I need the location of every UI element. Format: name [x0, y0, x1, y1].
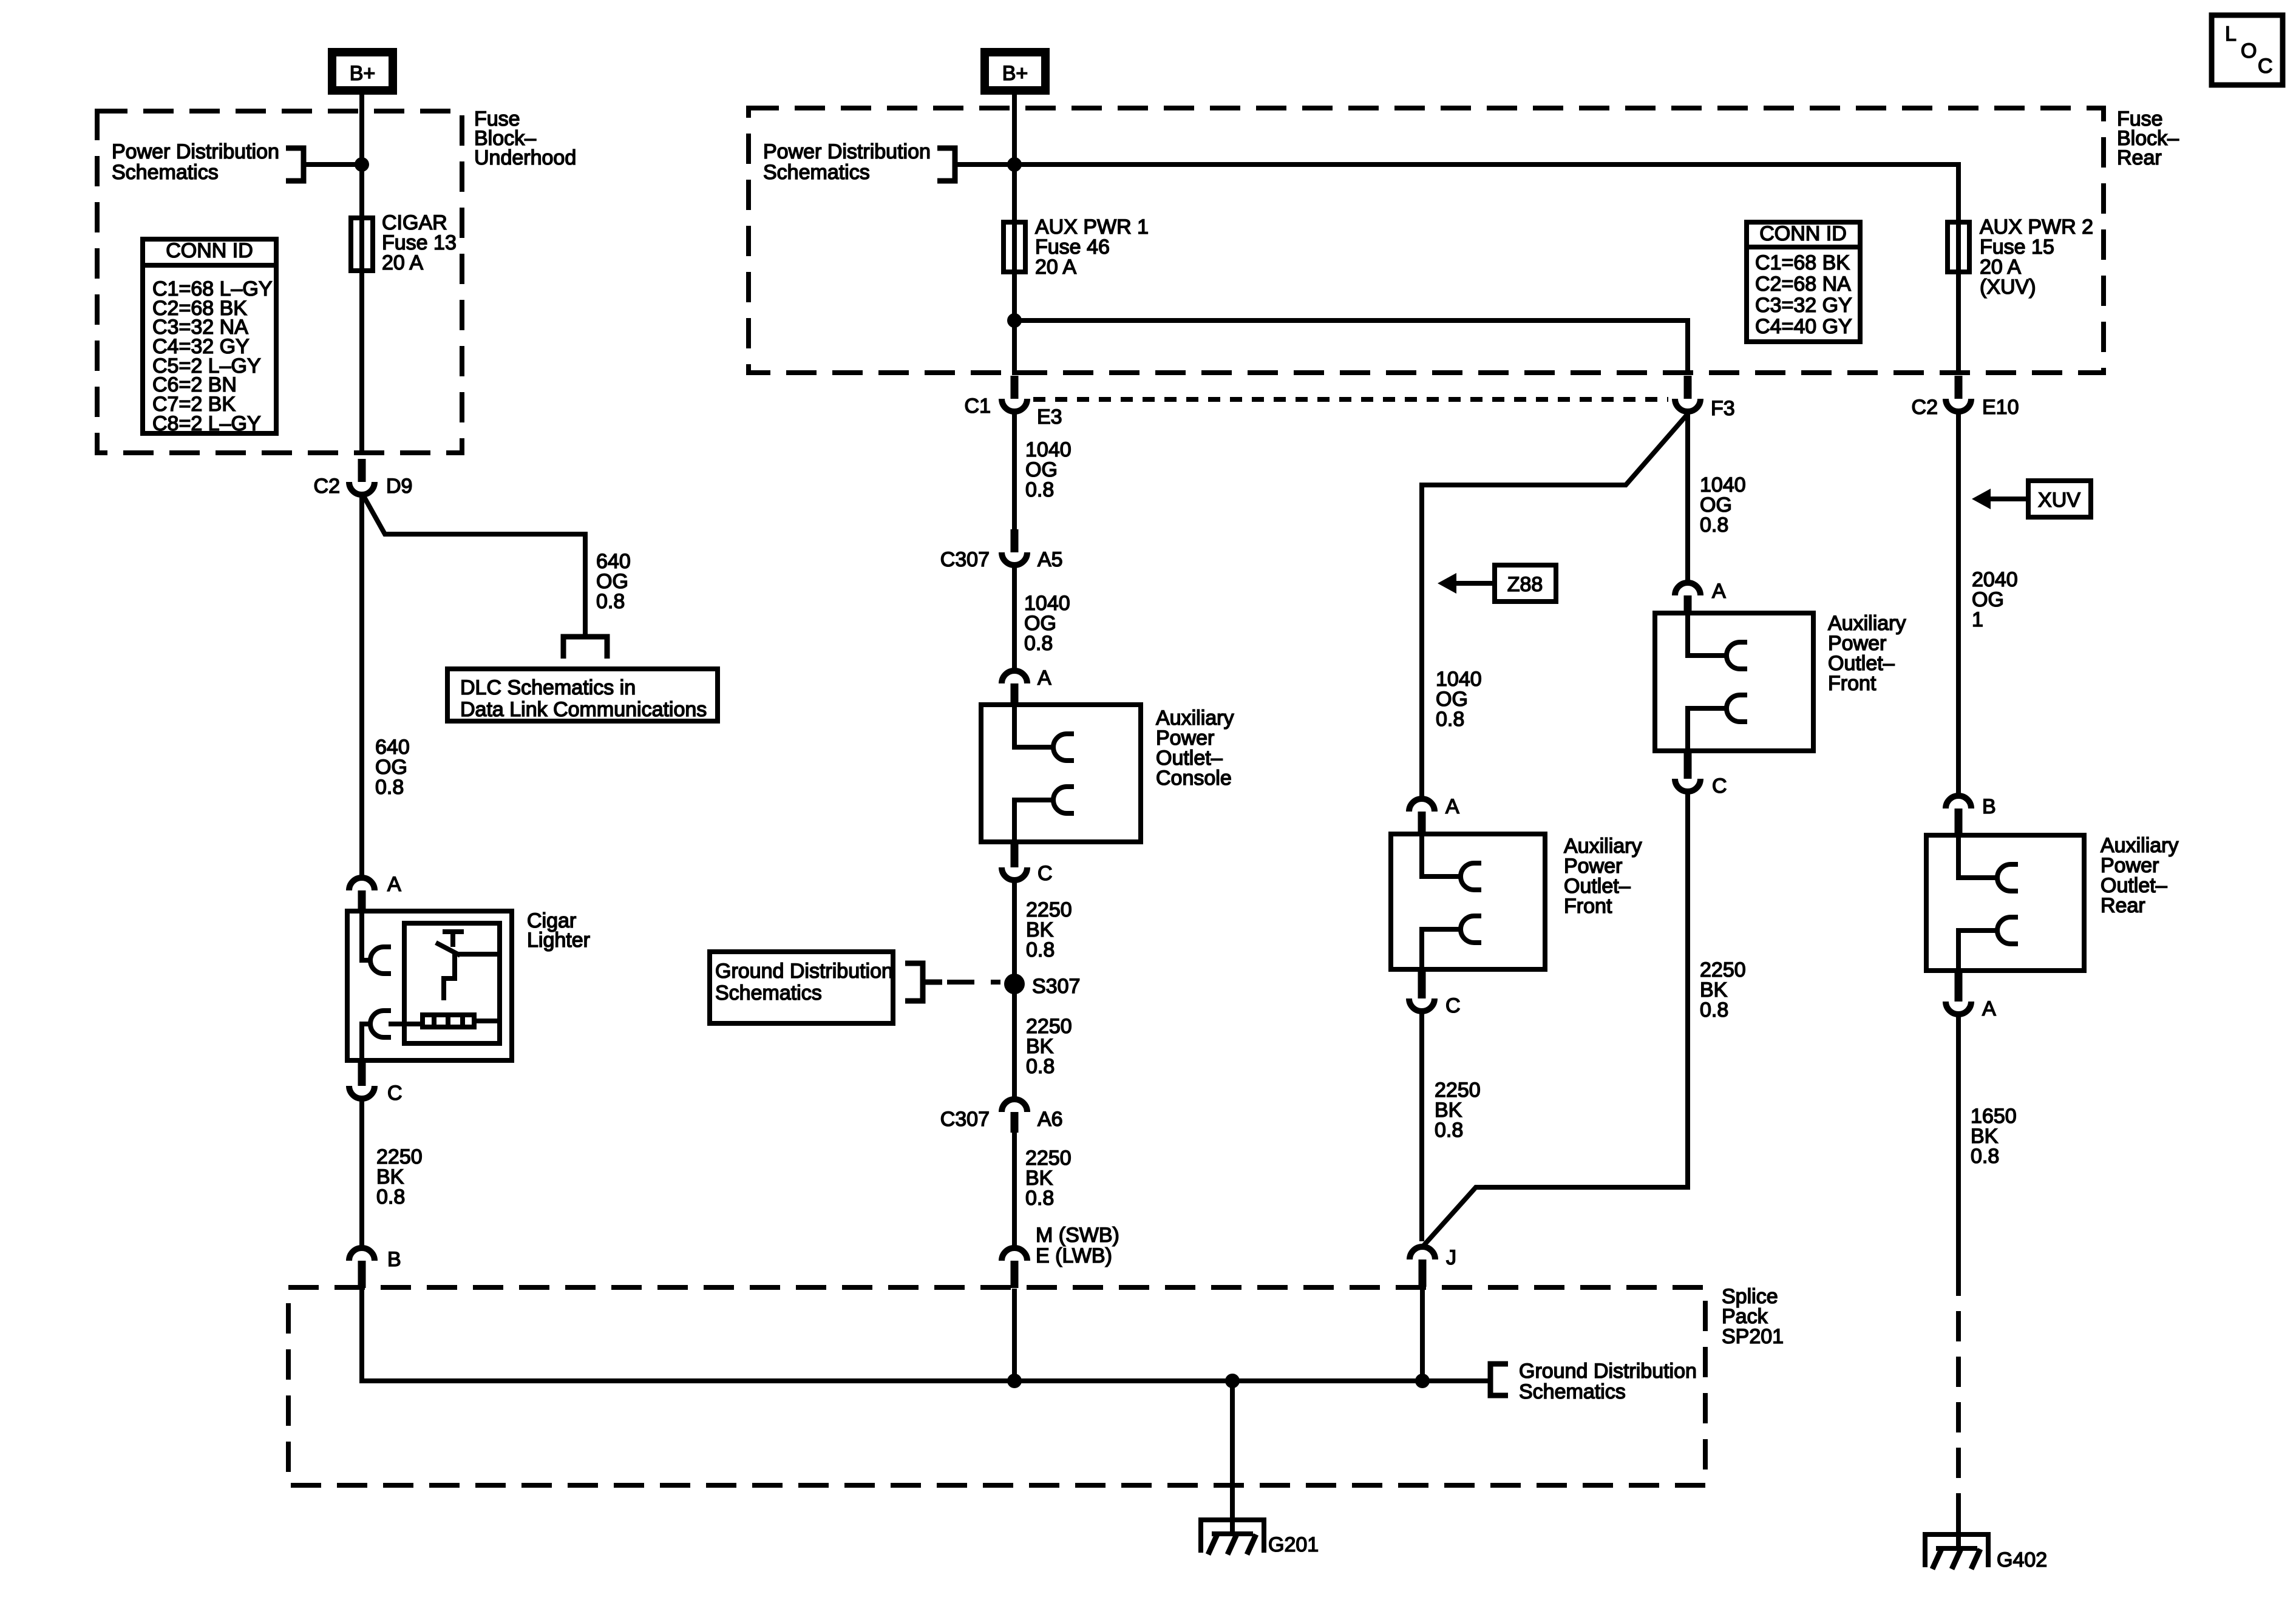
wire F3 to Z88 branch — [1422, 414, 1688, 796]
svg-text:M (SWB): M (SWB) — [1036, 1224, 1119, 1247]
label A (cigar lighter) — [387, 873, 401, 896]
cigar element resistor strip — [423, 1012, 474, 1029]
svg-text:E3: E3 — [1037, 405, 1062, 429]
front outlet 2 contact 1 — [1727, 642, 1747, 669]
label Splice Pack SP201 — [1722, 1285, 1784, 1348]
wire rear feed to AUX PWR 2 — [1014, 164, 1958, 274]
svg-text:C307: C307 — [940, 548, 990, 571]
svg-text:Data Link Communications: Data Link Communications — [460, 698, 707, 721]
label A (front outlet 1) — [1445, 795, 1459, 818]
cigar element switch blade — [436, 943, 460, 955]
svg-text:C: C — [1038, 862, 1053, 885]
svg-text:CONN ID: CONN ID — [166, 239, 253, 262]
svg-text:B: B — [1982, 795, 1996, 818]
wire front1 pin A to contact 1 — [1422, 835, 1461, 876]
connector A (cigar lighter) — [349, 878, 375, 914]
label C307 (connector A6) — [940, 1108, 990, 1131]
connector A (console outlet) — [1002, 671, 1027, 707]
svg-text:Schematics: Schematics — [1519, 1380, 1626, 1403]
label B (rear outlet) — [1982, 795, 1996, 818]
label C (cigar lighter) — [387, 1082, 402, 1105]
svg-text:0.8: 0.8 — [1700, 514, 1728, 537]
label M (SWB) — [1036, 1224, 1119, 1247]
svg-text:C8=2 L–GY: C8=2 L–GY — [152, 412, 261, 435]
label E10 (connector C2 E10) — [1982, 396, 2019, 419]
label C2 (connector C2 D9) — [314, 475, 340, 498]
bracket Ground Distribution Schematics (splice) — [1490, 1364, 1508, 1395]
wire cigar C to connector B — [359, 1101, 364, 1246]
svg-text:O: O — [2241, 39, 2257, 63]
arrow XUV to wire — [1972, 489, 2026, 509]
connector C2 E10 — [1946, 376, 1971, 412]
svg-text:Schematics: Schematics — [715, 981, 822, 1005]
svg-text:0.8: 0.8 — [1024, 632, 1053, 655]
svg-text:Front: Front — [1828, 672, 1877, 695]
svg-text:C2: C2 — [314, 475, 340, 498]
power symbol B+ (underhood feed) — [332, 52, 393, 90]
wire contact 2 to rear pin A — [1958, 931, 1997, 973]
wire console pin A to contact 1 — [1014, 706, 1053, 747]
logo LOC box — [2212, 15, 2283, 85]
label B (cigar lighter ground) — [387, 1248, 401, 1271]
svg-text:Ground Distribution: Ground Distribution — [715, 960, 893, 983]
svg-text:C1: C1 — [965, 395, 991, 418]
label S307 — [1032, 975, 1080, 998]
label Z88 (net reference) — [1495, 565, 1556, 602]
junction dot rear feed top — [1007, 157, 1022, 172]
dashed box Splice Pack SP201 — [288, 1287, 1705, 1485]
label 1040 OG 0.8 (console feed lower) — [1024, 592, 1070, 655]
svg-text:(XUV): (XUV) — [1980, 276, 2036, 299]
component box Auxiliary Power Outlet-Rear — [1926, 835, 2084, 971]
front outlet 1 contact 2 — [1461, 916, 1481, 943]
connector B (rear outlet) — [1946, 796, 1971, 838]
svg-text:C307: C307 — [940, 1108, 990, 1131]
svg-text:D9: D9 — [386, 475, 412, 498]
junction dot below AUX PWR 1 — [1007, 313, 1022, 328]
wire cigar pin A to contact 1 — [362, 910, 370, 960]
wire AUX PWR 1 to F3 — [1014, 320, 1688, 375]
label 1040 OG 0.8 (console feed upper) — [1025, 438, 1072, 501]
junction dot splice (J ground) — [1415, 1374, 1430, 1388]
svg-text:Power Distribution: Power Distribution — [763, 140, 931, 163]
bracket Power Distribution Schematics (underhood) — [286, 148, 304, 181]
wire B into splice pack — [362, 1289, 1488, 1381]
svg-text:C2: C2 — [1912, 396, 1938, 419]
label 1650 BK 0.8 (rear ground) — [1971, 1105, 2017, 1168]
svg-text:Rear: Rear — [2101, 894, 2145, 917]
label Cigar Lighter — [527, 909, 590, 952]
label J (splice pack) — [1446, 1246, 1456, 1269]
svg-text:C1=68 BK: C1=68 BK — [1755, 251, 1850, 274]
svg-text:A6: A6 — [1038, 1108, 1063, 1131]
power symbol B+ (rear feed) — [985, 52, 1045, 90]
svg-text:0.8: 0.8 — [1436, 708, 1464, 731]
connector C307 A6 — [1002, 1099, 1027, 1133]
svg-text:0.8: 0.8 — [1026, 1055, 1055, 1078]
cigar lighter contact 1 — [370, 947, 391, 974]
wire rear A down (solid) — [1956, 1017, 1961, 1266]
svg-text:1: 1 — [1972, 608, 1983, 631]
svg-text:SP201: SP201 — [1722, 1325, 1784, 1348]
component box Auxiliary Power Outlet-Front 2 — [1655, 613, 1813, 751]
component box Auxiliary Power Outlet-Front 1 — [1391, 834, 1545, 969]
label CIGAR Fuse 13 20 A — [382, 211, 457, 274]
label 2250 BK 0.8 (console ground upper) — [1026, 898, 1072, 961]
svg-text:Console: Console — [1156, 767, 1232, 790]
label 640 OG 0.8 (DLC branch) — [596, 550, 631, 613]
connector J (splice pack) — [1410, 1247, 1435, 1287]
wire contact 2 to front2 pin C — [1688, 708, 1727, 753]
label Auxiliary Power Outlet-Front 2 — [1828, 612, 1906, 695]
cigar lighter component box — [347, 911, 512, 1060]
table CONN ID (underhood) — [140, 239, 279, 435]
connector B (cigar lighter ground) — [349, 1248, 375, 1288]
wire splice to G201 — [1230, 1381, 1235, 1534]
ground G201 — [1198, 1520, 1266, 1554]
label Auxiliary Power Outlet-Front 1 — [1564, 835, 1642, 918]
bracket Power Distribution Schematics (rear) — [937, 148, 955, 181]
label E (LWB) — [1036, 1244, 1112, 1267]
svg-text:A: A — [387, 873, 401, 896]
cigar contact2 to strip link — [389, 1022, 420, 1026]
svg-text:Rear: Rear — [2117, 146, 2162, 169]
svg-text:G402: G402 — [1997, 1548, 2047, 1571]
svg-text:Lighter: Lighter — [527, 929, 590, 952]
svg-text:C4=40 GY: C4=40 GY — [1755, 315, 1852, 338]
svg-text:0.8: 0.8 — [1435, 1119, 1463, 1142]
connector C1 E3 — [1002, 376, 1027, 412]
cigar element terminal T — [443, 932, 464, 947]
svg-text:E10: E10 — [1982, 396, 2019, 419]
wire branch to DLC — [362, 493, 585, 637]
box DLC Schematics in Data Link Communications — [447, 669, 718, 721]
junction dot splice (G201 tap) — [1225, 1374, 1240, 1388]
label 2250 BK 0.8 (console ground lower) — [1026, 1015, 1072, 1078]
wire rear pin B to contact 1 — [1958, 836, 1997, 878]
connector F3 — [1675, 376, 1700, 412]
label F3 — [1711, 397, 1735, 420]
label E3 (connector C1 E3) — [1037, 405, 1062, 429]
label 2250 BK 0.8 (cigar ground) — [376, 1145, 423, 1209]
wire D9 to cigar lighter A — [359, 497, 364, 876]
dashed box Fuse Block-Rear — [749, 108, 2104, 373]
svg-text:L: L — [2225, 22, 2237, 46]
dashed link to S307 — [947, 980, 1000, 985]
svg-text:Front: Front — [1564, 895, 1612, 918]
label Power Distribution Schematics (underhood) — [112, 140, 279, 184]
label C (front outlet 1) — [1445, 994, 1461, 1017]
svg-text:Z88: Z88 — [1507, 573, 1543, 596]
box Ground Distribution Schematics — [710, 952, 893, 1023]
console outlet contact 1 — [1053, 734, 1074, 761]
wire front1 C to connector J — [1419, 1014, 1424, 1241]
wire AUX PWR 2 down to E10 — [1956, 220, 1961, 375]
label 2250 BK 0.8 (front outlet 2 ground) — [1700, 958, 1746, 1022]
connector C307 A5 — [1002, 529, 1027, 565]
dashed box Fuse Block-Underhood — [97, 111, 462, 453]
svg-text:J: J — [1446, 1246, 1456, 1269]
fuse AUX PWR 2 Fuse 15 20 A — [1948, 222, 1969, 272]
bracket Ground Distribution Schematics (S307) — [905, 963, 942, 1001]
label D9 (connector C2 D9) — [386, 475, 412, 498]
cigar lighter contact 2 — [370, 1011, 391, 1037]
dotted connector line C1 to F3 — [1033, 397, 1668, 402]
svg-text:XUV: XUV — [2038, 489, 2080, 512]
wire bracket to B+ feed — [306, 162, 362, 167]
label 2250 BK 0.8 (front outlet 1 ground) — [1435, 1079, 1481, 1142]
label G402 — [1997, 1548, 2047, 1571]
connector M/E (splice pack) — [1002, 1248, 1027, 1288]
wire bracket to rear B+ feed — [957, 162, 1014, 167]
svg-text:A: A — [1038, 666, 1051, 690]
svg-text:DLC Schematics in: DLC Schematics in — [460, 676, 636, 699]
svg-text:0.8: 0.8 — [1700, 998, 1728, 1022]
svg-text:0.8: 0.8 — [596, 590, 625, 613]
wire console C to A6 via S307 — [1012, 883, 1017, 1097]
label C1 (connector C1 E3) — [965, 395, 991, 418]
label 1040 OG 0.8 (front outlet 1 feed) — [1436, 668, 1482, 731]
wire M/E into splice — [1012, 1289, 1017, 1381]
connector C (console outlet) — [1002, 844, 1027, 880]
junction dot splice (console ground) — [1007, 1374, 1022, 1388]
connector C (front outlet 2) — [1675, 753, 1700, 792]
svg-text:0.8: 0.8 — [376, 1185, 405, 1209]
svg-text:C: C — [1712, 775, 1727, 798]
label Ground Distribution Schematics (splice) — [1519, 1360, 1697, 1403]
svg-text:Ground Distribution: Ground Distribution — [1519, 1360, 1697, 1383]
svg-text:Power Distribution: Power Distribution — [112, 140, 279, 163]
label AUX PWR 1 Fuse 46 20 A — [1035, 215, 1149, 279]
wire contact 2 to console pin C — [1014, 800, 1053, 844]
ground G402 — [1923, 1534, 1991, 1569]
connector C2 D9 — [349, 459, 375, 495]
label Power Distribution Schematics (rear) — [763, 140, 931, 184]
front outlet 1 contact 1 — [1461, 863, 1481, 890]
connector C (front outlet 1) — [1409, 972, 1435, 1011]
svg-text:A: A — [1445, 795, 1459, 818]
label A6 (connector A6) — [1038, 1108, 1063, 1131]
svg-text:0.8: 0.8 — [1025, 1187, 1054, 1210]
connector A (front outlet 2) — [1675, 583, 1700, 615]
svg-text:C: C — [2258, 55, 2273, 78]
wire A6 to splice pack M/E — [1012, 1133, 1017, 1246]
wire B+ rear down to C1 — [1012, 95, 1017, 375]
wire C1 to C307 A5 — [1012, 414, 1017, 532]
wire front2 pin A to contact 1 — [1688, 614, 1727, 656]
svg-text:0.8: 0.8 — [1971, 1145, 1999, 1168]
fuse AUX PWR 1 Fuse 46 20 A — [1004, 222, 1025, 272]
arrow Z88 to wire — [1438, 573, 1492, 594]
wire J into splice — [1420, 1287, 1425, 1381]
wire rear A to G402 (dashed) — [1956, 1266, 1961, 1518]
wire B+ down through fuse block — [359, 95, 364, 455]
svg-text:F3: F3 — [1711, 397, 1735, 420]
label C307 (connector A5) — [940, 548, 990, 571]
wire into G402 — [1956, 1518, 1961, 1548]
svg-text:G201: G201 — [1268, 1533, 1319, 1556]
svg-text:20 A: 20 A — [382, 251, 423, 274]
wire A5 to console outlet A — [1012, 568, 1017, 668]
label 2040 OG 1 (rear feed) — [1972, 568, 2018, 631]
label Fuse Block-Rear — [2117, 107, 2179, 169]
svg-text:E (LWB): E (LWB) — [1036, 1244, 1112, 1267]
label C (console outlet) — [1038, 862, 1053, 885]
label A (console outlet) — [1038, 666, 1051, 690]
label A (front outlet 2) — [1712, 580, 1726, 603]
svg-text:S307: S307 — [1032, 975, 1080, 998]
rear outlet contact 1 — [1997, 864, 2018, 891]
rear outlet contact 2 — [1997, 917, 2018, 944]
svg-text:CONN ID: CONN ID — [1759, 222, 1847, 245]
label C2 (connector C2 E10) — [1912, 396, 1938, 419]
wire contact 2 to cigar pin C — [362, 1024, 370, 1063]
label AUX PWR 2 Fuse 15 20 A (XUV) — [1980, 215, 2093, 299]
label A5 (connector A5) — [1038, 548, 1063, 571]
console outlet contact 2 — [1053, 787, 1074, 813]
fuse CIGAR Fuse 13 20 A — [351, 218, 373, 271]
table CONN ID (rear) — [1744, 222, 1863, 342]
connector A (rear outlet) — [1946, 973, 1971, 1014]
svg-text:0.8: 0.8 — [1026, 938, 1055, 961]
terminal bracket to DLC — [563, 637, 607, 659]
label Auxiliary Power Outlet-Rear — [2101, 834, 2178, 917]
wire front2 C to connector J — [1424, 794, 1688, 1246]
connector C (cigar lighter) — [349, 1063, 375, 1099]
splice S307 — [1004, 974, 1025, 994]
svg-text:B+: B+ — [1002, 62, 1028, 85]
svg-text:0.8: 0.8 — [1025, 478, 1054, 501]
front outlet 2 contact 2 — [1727, 695, 1747, 722]
svg-text:B+: B+ — [350, 62, 376, 85]
svg-text:C: C — [387, 1082, 402, 1105]
svg-text:Underhood: Underhood — [474, 146, 576, 169]
label 2250 BK 0.8 (A6 ground) — [1025, 1147, 1072, 1210]
svg-text:20 A: 20 A — [1035, 256, 1076, 279]
wire E10 to rear outlet B — [1956, 414, 1961, 793]
cigar element right link — [458, 954, 500, 1021]
label XUV (net reference) — [2028, 481, 2091, 517]
svg-text:Schematics: Schematics — [112, 161, 219, 184]
svg-text:A: A — [1982, 997, 1996, 1020]
svg-text:C3=32 GY: C3=32 GY — [1755, 294, 1852, 317]
wire F3 down to front outlet 2 — [1685, 414, 1690, 580]
svg-text:Schematics: Schematics — [763, 161, 870, 184]
svg-text:C2=68 NA: C2=68 NA — [1755, 273, 1851, 296]
cigar element heater step — [444, 952, 455, 1000]
svg-text:A5: A5 — [1038, 548, 1063, 571]
label 640 OG 0.8 (cigar feed) — [375, 736, 410, 799]
label C (front outlet 2) — [1712, 775, 1727, 798]
component box Auxiliary Power Outlet-Console — [981, 705, 1141, 842]
label Fuse Block-Underhood — [474, 107, 576, 169]
label A (rear outlet) — [1982, 997, 1996, 1020]
wire contact 2 to front1 pin C — [1422, 929, 1461, 972]
cigar lighter element box — [404, 923, 500, 1043]
label G201 — [1268, 1533, 1319, 1556]
svg-text:0.8: 0.8 — [375, 776, 404, 799]
connector A (front outlet 1) — [1409, 799, 1435, 836]
label 1040 OG 0.8 (front outlet 2 feed) — [1700, 473, 1746, 537]
junction dot under B+ (underhood) — [355, 157, 369, 172]
svg-text:B: B — [387, 1248, 401, 1271]
svg-text:A: A — [1712, 580, 1726, 603]
label Auxiliary Power Outlet-Console — [1156, 707, 1234, 790]
svg-text:C: C — [1445, 994, 1461, 1017]
